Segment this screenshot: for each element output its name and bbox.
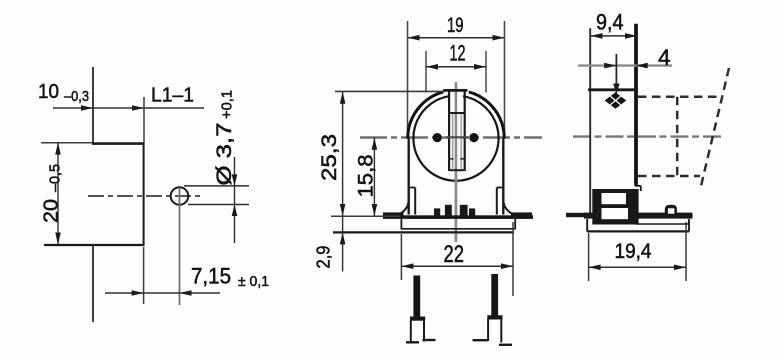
dimension 22: [401, 222, 513, 296]
dimension Ø 3,7 +0,1 (hole diameter): [184, 90, 249, 243]
slot wall ticks: [448, 158, 466, 160]
snap hook right: [497, 188, 514, 215]
contact pin left: [406, 276, 436, 343]
lamp phantom slanted dashed line: [701, 68, 729, 186]
svg-text:12: 12: [450, 41, 466, 66]
slot outer walls: [449, 90, 465, 172]
hole circle: [171, 187, 189, 205]
body left edge: [589, 28, 591, 215]
slot inner channel lines: [453, 114, 462, 170]
svg-text:–0,5: –0,5: [48, 164, 64, 192]
body right edge: [143, 143, 145, 245]
svg-text:19: 19: [447, 14, 464, 37]
body top edge: [588, 88, 638, 91]
lamp pin dot right: [469, 133, 478, 142]
centre tab block right: [460, 205, 468, 216]
body right step: [635, 186, 641, 191]
fixing bump right: [665, 205, 677, 214]
orientation diamond mark: [605, 92, 627, 108]
vertical centerline: [455, 82, 457, 242]
lamp phantom bottom dashed line: [638, 175, 700, 178]
contact pin right: [473, 274, 513, 345]
dimension 2,9: [314, 216, 346, 272]
slot interior white: [450, 89, 462, 171]
body bottom edge: [44, 244, 145, 246]
svg-text:20: 20: [41, 199, 63, 223]
svg-text:Ø 3,7: Ø 3,7: [213, 123, 236, 186]
svg-text:25,3: 25,3: [318, 134, 341, 181]
slot cap bottom: [450, 169, 465, 171]
mounting wall line upper segment: [92, 67, 94, 144]
base bump right: [469, 208, 475, 216]
slot centre gray line: [455, 85, 458, 242]
centerline through hole: [88, 195, 200, 197]
dimension 12: [426, 41, 486, 93]
right view base box: [587, 219, 689, 232]
mounting plate left tab: [566, 213, 584, 217]
svg-text:7,15: 7,15: [191, 264, 231, 289]
base top extension for 2,9: [331, 215, 400, 217]
slot top cap: [443, 89, 467, 92]
lamp phantom vertical dashed line: [676, 97, 679, 176]
svg-text:9,4: 9,4: [596, 10, 624, 35]
svg-text:± 0,1: ± 0,1: [238, 273, 269, 290]
svg-text:2,9: 2,9: [314, 246, 334, 269]
slot cap mid: [449, 112, 465, 114]
dimension 10 -0,3: [38, 80, 204, 111]
dimension 4: [578, 45, 672, 95]
terminal block: [592, 189, 638, 225]
base bottom line with 2,9 extension: [333, 231, 514, 233]
right view horizontal centerline: [573, 135, 723, 137]
lamp pin dot left: [433, 133, 442, 142]
base tab left: [383, 212, 404, 217]
svg-text:22: 22: [444, 241, 465, 268]
centerline crossing slot: [446, 136, 468, 138]
dimension 19: [408, 14, 505, 138]
snap hook left: [398, 188, 415, 215]
dimension 15,8: [355, 138, 378, 216]
mounting plate bar (section): [584, 213, 693, 219]
inner circle: [413, 96, 498, 181]
svg-text:+0,1: +0,1: [220, 90, 236, 119]
svg-text:4: 4: [658, 45, 671, 70]
base box: [401, 219, 515, 230]
dimension 7,15 ±0,1: [105, 247, 269, 304]
body side right below equator: [502, 138, 504, 215]
dimension 9,4: [591, 10, 638, 39]
svg-text:10: 10: [38, 80, 59, 103]
body top edge: [41, 142, 145, 145]
base tab right: [511, 212, 532, 217]
dimension 20 -0,5: [41, 143, 64, 245]
base bump left: [434, 208, 440, 216]
body side left below equator: [408, 138, 410, 215]
lamp phantom top dashed line: [638, 96, 719, 99]
mounting wall line lower segment: [92, 246, 94, 322]
svg-text:19,4: 19,4: [615, 240, 652, 263]
dimension 25,3: [318, 91, 445, 216]
horizontal centerline: [360, 136, 542, 139]
svg-text:15,8: 15,8: [355, 155, 378, 198]
hole axis vertical line: [179, 188, 181, 306]
base plate bar: [383, 215, 533, 219]
label L1-1: [144, 85, 194, 144]
body right edge: [634, 24, 638, 186]
dimension 19,4: [589, 222, 686, 281]
svg-text:–0,3: –0,3: [64, 88, 89, 105]
svg-text:L1–1: L1–1: [151, 85, 194, 107]
centre tab block left: [445, 205, 452, 216]
outer circle top arcs: [408, 92, 505, 139]
